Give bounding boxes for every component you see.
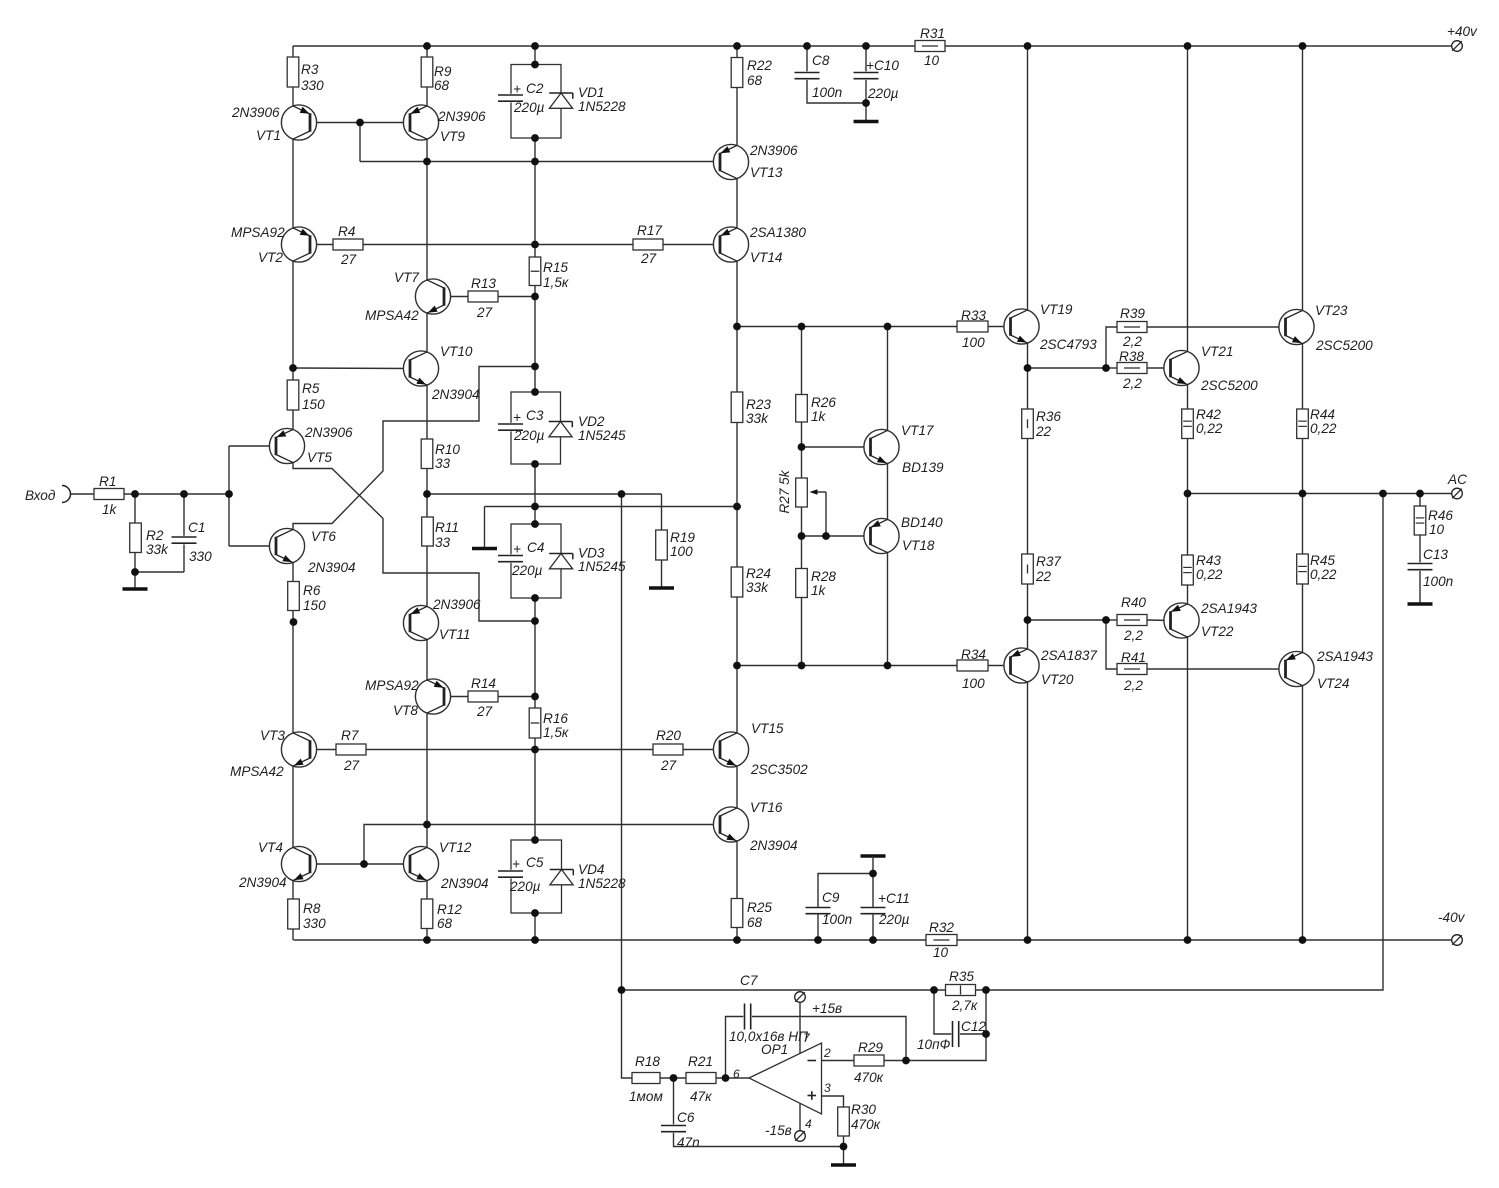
resistor R8 [288,899,300,929]
resistor R2 [130,523,142,553]
svg-text:27: 27 [660,758,677,773]
svg-text:VT13: VT13 [750,165,783,180]
wire C8 bottom jog [807,79,866,103]
svg-text:VT6: VT6 [311,529,336,544]
resistor R37 [1022,554,1034,584]
svg-text:VT3: VT3 [260,728,285,743]
svg-text:R29: R29 [858,1040,883,1055]
wire column 1302 [1302,46,1304,940]
wire C10 gnd [865,79,867,122]
svg-text:2SC4793: 2SC4793 [1039,337,1097,352]
junction [618,986,626,994]
svg-text:R24: R24 [746,566,771,581]
svg-text:10: 10 [924,53,940,68]
svg-text:22: 22 [1035,424,1052,439]
capacitor C11 [860,906,887,915]
svg-text:0,22: 0,22 [1310,421,1337,436]
svg-text:R26: R26 [811,395,836,410]
svg-text:100: 100 [670,544,693,559]
wire R41 row [1147,668,1286,670]
wire pin4 [799,1100,801,1131]
junction [869,870,877,878]
svg-text:2N3904: 2N3904 [431,387,480,402]
wire pin7 [799,1003,801,1053]
transistor VT24 [1279,651,1314,686]
svg-text:+: + [513,82,521,97]
wire C6 bottom row [674,1132,844,1147]
junction [869,936,877,944]
transistor VT13 [713,144,748,179]
wire R38 row [1147,367,1171,369]
svg-text:-15в: -15в [765,1123,792,1138]
resistor R20 [653,744,683,755]
svg-text:4: 4 [805,1117,812,1131]
wire VT20 top row [1028,619,1107,621]
svg-text:33k: 33k [146,542,169,557]
junction [531,42,539,50]
junction [822,532,830,540]
capacitor C6 [660,1124,687,1133]
junction [733,936,741,944]
wire VT6 collector path [293,367,535,530]
resistor R13 [468,291,498,302]
wire lower VAS row [737,665,957,667]
wire C6 stem [673,1078,675,1126]
resistor R15 [529,257,541,286]
svg-text:R34: R34 [961,647,986,662]
wire C12 right jog [959,1033,986,1035]
junction [360,860,368,868]
svg-text:VT21: VT21 [1201,344,1234,359]
resistor R23 [731,392,743,423]
capacitor C12 [951,1020,960,1048]
capacitor C3 [497,423,524,432]
resistor R5 [287,380,299,410]
transistor VT14 [713,227,748,262]
wire VT18 base [802,535,871,537]
wire VT2-VT10 base row [293,367,410,370]
svg-text:2SA1943: 2SA1943 [1316,649,1373,664]
svg-text:47n: 47n [677,1135,700,1150]
terminal -15v [795,1131,806,1142]
junction [1184,490,1192,498]
junction [618,490,626,498]
resistor R4 [333,239,363,250]
resistor R14 [468,691,498,702]
svg-text:VT5: VT5 [307,450,332,465]
svg-text:MPSA92: MPSA92 [231,225,285,240]
svg-text:27: 27 [640,251,657,266]
resistor R12 [421,899,433,929]
wire R27 wiper arrow [812,491,826,493]
svg-text:R46: R46 [1428,508,1453,523]
wire column 1027 [1027,46,1029,940]
wire R39 jog [1106,327,1117,368]
wire C10 branch [865,46,867,73]
junction [884,323,892,331]
junction [798,532,806,540]
wire R27 wiper [825,492,827,536]
transistor VT20 [1004,648,1039,683]
wire VT5 base [229,445,276,447]
svg-text:27: 27 [340,252,357,267]
transistor VT15 [713,732,748,767]
transistor VT9 [403,105,438,140]
junction [798,662,806,670]
svg-text:VT4: VT4 [258,840,283,855]
svg-text:2,2: 2,2 [1122,334,1142,349]
resistor R45 [1297,554,1309,584]
svg-text:+C10: +C10 [866,58,899,73]
svg-text:R44: R44 [1310,407,1335,422]
svg-text:2N3904: 2N3904 [749,838,798,853]
svg-text:R43: R43 [1196,553,1221,568]
svg-text:1N5228: 1N5228 [578,876,626,891]
junction [180,490,188,498]
svg-text:68: 68 [747,915,763,930]
capacitor C4 [497,554,524,563]
resistor R39 [1117,322,1147,333]
svg-text:R37: R37 [1036,554,1061,569]
junction [814,936,822,944]
junction [982,986,990,994]
junction [531,693,539,701]
wire pin2 row [822,1060,855,1062]
junction [531,241,539,249]
wire VT1-VT9 base row [310,122,410,124]
svg-text:330: 330 [303,916,326,931]
svg-text:220µ: 220µ [867,86,899,101]
wire C8 branch [806,46,808,73]
junction [423,936,431,944]
svg-text:2N3906: 2N3906 [231,105,280,120]
wire C9 branch [817,914,819,940]
wire R19 gnd [661,560,663,588]
capacitor C8 [794,71,821,80]
capacitor C10 [853,71,880,80]
svg-text:220µ: 220µ [509,879,541,894]
svg-text:C4: C4 [527,540,545,555]
svg-text:2,2: 2,2 [1123,628,1143,643]
wire VT5 collector path [293,463,535,621]
resistor R40 [1117,615,1147,626]
svg-text:0,22: 0,22 [1310,567,1337,582]
resistor R16 [529,708,541,738]
svg-text:R18: R18 [635,1054,660,1069]
wire pin3 [822,1096,844,1107]
svg-text:R23: R23 [746,397,771,412]
ground input [123,587,148,590]
svg-text:47к: 47к [690,1089,712,1104]
junction [1299,936,1307,944]
junction [531,134,539,142]
svg-text:Вход: Вход [25,488,56,503]
svg-text:R32: R32 [929,920,954,935]
junction [531,388,539,396]
svg-text:VD1: VD1 [578,85,604,100]
svg-text:6: 6 [733,1067,740,1081]
resistor R43 [1182,555,1194,585]
svg-text:VD2: VD2 [578,414,605,429]
resistor R9 [421,57,433,87]
svg-text:BD140: BD140 [901,515,943,530]
svg-text:2SC5200: 2SC5200 [1200,378,1258,393]
resistor R28 [796,569,808,598]
svg-text:R41: R41 [1121,650,1146,665]
transistor VT1 [281,105,316,140]
transistor VT11 [403,605,438,640]
wire left column lower [292,529,294,940]
svg-text:100: 100 [962,335,985,350]
junction [290,618,298,626]
wire column 737 [736,46,738,940]
svg-text:R7: R7 [341,728,359,743]
svg-text:2,7к: 2,7к [951,998,978,1013]
svg-text:VT20: VT20 [1041,672,1074,687]
wire C12 left jog [934,990,953,1034]
transistor VT19 [1004,309,1039,344]
svg-text:R33: R33 [961,308,986,323]
svg-text:1,5к: 1,5к [543,275,569,290]
svg-text:R17: R17 [637,223,662,238]
wire VT4-VT12 base row [311,863,410,865]
svg-text:R2: R2 [146,528,164,543]
junction [1024,616,1032,624]
svg-text:33k: 33k [746,580,769,595]
junction [131,490,139,498]
resistor R33 [957,321,988,332]
wire R40 row [1147,619,1171,622]
junction [1024,42,1032,50]
svg-text:R3: R3 [301,62,319,77]
svg-text:BD139: BD139 [902,460,944,475]
terminal -40v [1452,935,1463,946]
transistor VT4 [281,846,316,881]
svg-text:VD4: VD4 [578,862,605,877]
svg-text:VT18: VT18 [902,538,935,553]
svg-text:VT1: VT1 [256,128,281,143]
svg-text:R11: R11 [435,520,459,535]
wire VT5/VT6 base column [228,446,230,546]
svg-text:VT11: VT11 [439,627,470,642]
wire R13 row [444,296,535,298]
wire C2/VD1 frame [511,65,561,139]
wire VT16 base row [427,824,720,826]
zener VD2 [549,422,572,437]
resistor R11 [422,517,434,546]
svg-text:VT15: VT15 [751,721,784,736]
svg-text:C8: C8 [812,53,830,68]
svg-text:R10: R10 [435,442,460,457]
svg-text:R19: R19 [670,530,695,545]
svg-text:68: 68 [434,78,450,93]
svg-text:330: 330 [189,549,212,564]
resistor R44 [1297,409,1309,439]
svg-text:220µ: 220µ [511,563,543,578]
junction [798,323,806,331]
wire output feedback [622,494,1384,991]
junction [423,42,431,50]
svg-text:150: 150 [302,397,325,412]
junction [531,503,539,511]
resistor R3 [287,57,299,87]
junction [733,323,741,331]
capacitor C7 [743,1003,752,1031]
svg-text:2SA1943: 2SA1943 [1200,601,1257,616]
resistor R29 [854,1055,884,1066]
wire R4-R17 row [310,244,720,246]
resistor R18 [632,1073,660,1084]
svg-text:3: 3 [824,1081,831,1095]
resistor R7 [336,744,366,755]
junction [423,490,431,498]
svg-text:R22: R22 [747,58,772,73]
terminal AC [1452,488,1463,499]
junction [1102,616,1110,624]
capacitor C1 [171,536,198,545]
svg-text:VT24: VT24 [1317,676,1350,691]
resistor R35 [946,985,976,996]
terminal input connector [62,486,70,503]
svg-text:R1: R1 [99,474,116,489]
wire R29 right lead [884,1060,906,1062]
svg-text:1мом: 1мом [629,1089,663,1104]
svg-text:VT7: VT7 [394,270,419,285]
junction [862,99,870,107]
svg-text:R15: R15 [543,260,568,275]
svg-text:R12: R12 [437,902,462,917]
svg-text:VT17: VT17 [901,423,934,438]
transistor VT3 [281,732,316,767]
wire R14 row [444,696,535,698]
svg-text:R38: R38 [1119,349,1144,364]
transistor VT23 [1279,309,1314,344]
wire row B [485,506,738,508]
wire R2 branch [134,494,136,589]
wire C7 row [726,1017,745,1079]
resistor R30 [838,1107,850,1136]
svg-text:C5: C5 [526,855,544,870]
ground row B [472,547,497,550]
svg-text:R20: R20 [656,728,681,743]
svg-text:AC: AC [1447,472,1467,487]
svg-text:C12: C12 [961,1019,986,1034]
junction [670,1074,678,1082]
wire VAS output row [737,326,957,328]
junction [733,503,741,511]
terminal +40v [1452,41,1463,52]
svg-text:R30: R30 [851,1102,876,1117]
svg-text:+C11: +C11 [878,891,910,906]
junction [531,61,539,69]
svg-text:+15в: +15в [812,1001,842,1016]
wire VT6 base [229,545,276,547]
wire C7 right [752,1017,906,1061]
wire R7-R20 row [311,749,721,751]
wire VT17 base [802,446,871,448]
terminal +15v [795,992,806,1003]
wire VT13 base row [360,161,720,163]
svg-text:R42: R42 [1196,407,1221,422]
svg-text:0,22: 0,22 [1196,567,1223,582]
svg-text:VT23: VT23 [1315,303,1348,318]
resistor R21 [686,1073,716,1084]
svg-text:VT9: VT9 [440,129,465,144]
junction [531,363,539,371]
wire R19 branch [661,494,663,530]
junction [1299,490,1307,498]
junction [1024,364,1032,372]
ground C10 [854,120,879,123]
svg-text:33: 33 [435,456,451,471]
resistor R32 [926,935,957,946]
wire R30 bottom [843,1136,845,1165]
svg-text:MPSA42: MPSA42 [230,764,284,779]
junction [798,443,806,451]
svg-text:VT19: VT19 [1040,302,1073,317]
ground C11 top [861,854,886,857]
junction [982,1030,990,1038]
junction [423,158,431,166]
svg-text:2SA1380: 2SA1380 [749,225,806,240]
svg-text:C7: C7 [740,973,758,988]
junction [531,909,539,917]
wire C5/VD4 frame [511,840,562,913]
wire base jog bottom [364,825,427,865]
svg-text:1k: 1k [102,502,118,517]
svg-text:R31: R31 [920,26,945,41]
svg-text:33: 33 [435,535,451,550]
wire C1 branch [183,494,185,572]
svg-text:1,5к: 1,5к [543,725,569,740]
op-amp OP1 [749,1043,822,1114]
wire column 427 [426,46,428,940]
svg-text:68: 68 [437,916,453,931]
junction [1024,936,1032,944]
junction [531,460,539,468]
svg-text:R40: R40 [1121,595,1146,610]
wire column 535 [534,46,536,940]
wire C13 gnd [1419,570,1421,604]
wire R40 lead [1106,619,1117,621]
wire row326 to VT19 [988,326,1011,328]
junction [131,568,139,576]
resistor R19 [656,530,668,560]
svg-text:330: 330 [301,78,324,93]
resistor R1 [94,489,124,500]
wire +40v rail [293,45,1452,47]
capacitor C5 [497,870,524,879]
junction [803,42,811,50]
junction [840,1143,848,1151]
wire C9 top jog [818,874,873,908]
svg-text:-40v: -40v [1438,910,1466,925]
svg-text:2SC3502: 2SC3502 [750,762,808,777]
resistor R17 [633,239,663,250]
resistor R46 [1414,506,1426,535]
wire column 887 [887,327,889,666]
ground C13 [1408,602,1433,605]
svg-text:1k: 1k [811,409,827,424]
svg-text:2,2: 2,2 [1123,678,1143,693]
transistor VT8 [415,679,450,714]
wire row B gnd stem [484,507,486,549]
svg-text:R14: R14 [471,676,496,691]
wire feedback vertical [622,494,633,1078]
svg-text:R21: R21 [688,1054,713,1069]
junction [1184,42,1192,50]
junction [733,42,741,50]
